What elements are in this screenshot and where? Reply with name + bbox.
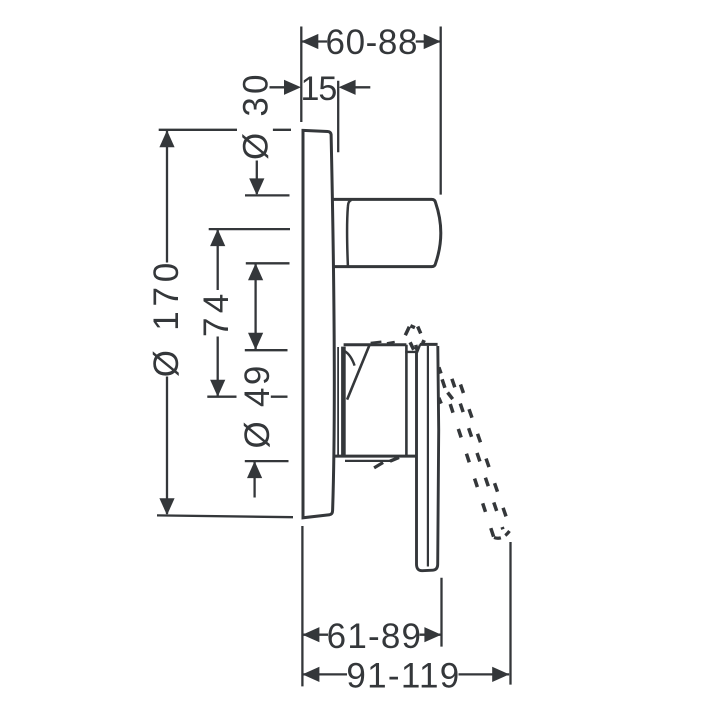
svg-text:Ø 49: Ø 49 <box>238 363 277 448</box>
svg-text:74: 74 <box>197 289 236 337</box>
svg-text:Ø 30: Ø 30 <box>237 71 276 160</box>
svg-text:91-119: 91-119 <box>346 656 460 695</box>
svg-text:61-89: 61-89 <box>327 617 423 656</box>
svg-text:15: 15 <box>300 70 336 108</box>
svg-text:Ø 170: Ø 170 <box>147 258 186 377</box>
svg-text:60-88: 60-88 <box>326 23 419 62</box>
